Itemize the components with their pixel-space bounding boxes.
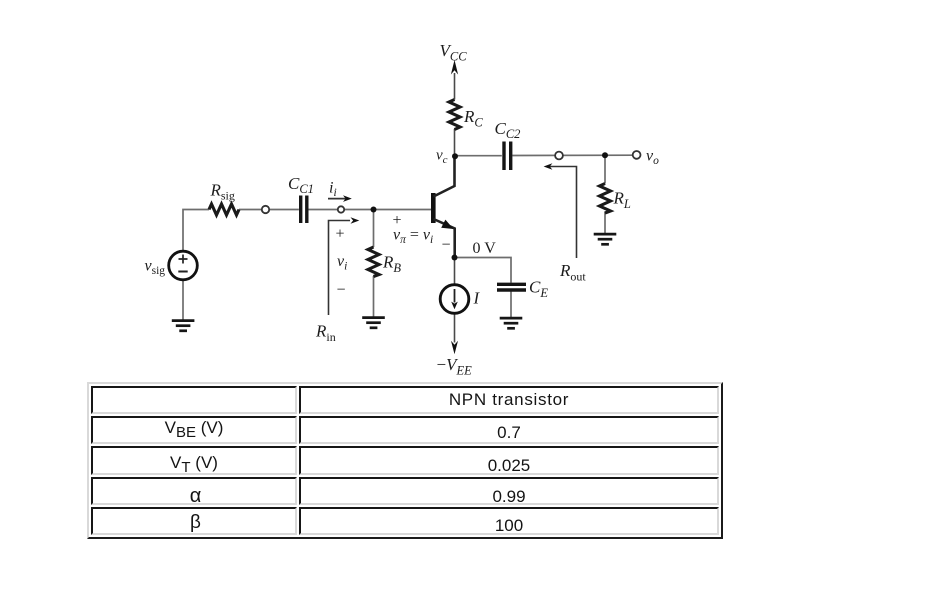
capacitor CC1 [301,196,307,224]
ground (CE) [500,318,523,328]
wire: CC2 to output node [512,154,633,156]
VEE rail arrow [451,341,458,355]
node emitter (0V) [452,255,458,261]
resistor RB [368,247,379,277]
svg-text:Rsig: Rsig [210,181,235,203]
transistor Q1 emitter arrowhead [441,220,453,229]
open terminal vo [633,151,641,159]
transistor Q1 emitter [434,219,455,258]
current source I circle [440,285,469,314]
wire: CE to ground [510,291,512,317]
Rin probe bracket and arrow [329,221,351,316]
svg-text:vi: vi [337,253,347,273]
svg-text:vsig: vsig [145,258,166,278]
svg-text:CE: CE [529,278,548,301]
Rout probe bracket and arrow [549,167,577,259]
svg-text:vc: vc [436,148,448,167]
ground (vsig) [172,321,195,331]
svg-text:−VEE: −VEE [437,355,473,378]
svg-text:Rout: Rout [559,261,586,284]
wire: RL to ground [604,212,606,234]
svg-text:+: + [336,226,345,243]
wire: RC to vc node [454,129,456,156]
svg-text:ii: ii [329,180,337,200]
capacitor CC2 [504,142,511,171]
wire: vsig bottom to ground [182,280,184,320]
source vsig plus [179,255,188,264]
resistor Rsig [209,204,239,215]
wire: base node to RB top [373,210,375,248]
svg-text:RB: RB [382,253,401,276]
open terminal after Rsig [262,206,269,213]
svg-text:VCC: VCC [440,41,468,64]
wire: VCC arrow to RC [454,73,456,100]
ground (RB) [362,318,385,328]
wire: emitter node to CE corner [455,258,512,283]
transistor Q1 collector [434,156,455,197]
open terminal before base [338,206,344,212]
svg-text:vπ = vi: vπ = vi [393,227,433,247]
wire: current source to VEE arrow [454,313,456,342]
svg-text:−: − [337,282,346,299]
transistor Q1 base bar [431,193,436,223]
capacitor CE [497,284,526,290]
wire: emitter node to current source [454,258,456,285]
svg-text:vo: vo [646,148,659,168]
svg-text:RL: RL [613,189,631,212]
source vsig circle [169,251,198,280]
node output [602,152,608,158]
svg-text:RC: RC [463,107,483,130]
current arrow ii [328,198,347,200]
svg-text:CC1: CC1 [288,174,314,196]
svg-text:CC2: CC2 [495,119,521,141]
resistor RL [600,184,611,214]
wire: output node to RL [604,155,606,183]
svg-text:−: − [442,237,451,254]
wire: Rsig to open terminal [239,209,299,211]
wire: CC1 to base node [308,209,431,211]
ground (RL) [594,234,617,244]
wire: vsig top to Rsig [183,210,209,252]
svg-text:I: I [473,289,481,308]
svg-text:Rin: Rin [315,322,336,345]
svg-text:0 V: 0 V [473,240,497,257]
wire: RB bottom to ground [373,276,375,317]
current source I arrow [454,289,456,303]
resistor RC [449,100,460,130]
wire: vc node to CC2 [455,155,502,157]
parameter table [87,382,723,539]
node base [371,207,377,213]
source vsig minus [178,271,187,273]
VCC rail arrow [451,60,458,75]
open terminal after CC2 [555,152,563,160]
node vc [452,153,458,159]
